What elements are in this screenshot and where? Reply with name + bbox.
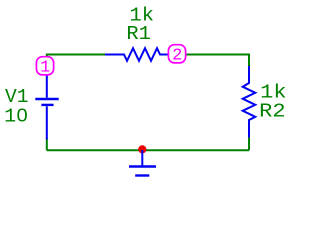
voltage source V1 positive plate (long bar) <box>35 98 58 100</box>
voltage source V1 (battery) leads <box>46 66 48 140</box>
resistor R1 body (zigzag) <box>105 48 170 61</box>
svg-text:R2: R2 <box>259 100 286 122</box>
resistor R2 body (zigzag) <box>243 66 256 138</box>
junction dot (red) on ground rail <box>138 145 146 153</box>
voltage source V1 negative plate (short bar) <box>41 104 53 106</box>
wire: node 1 up to top-left corner and right to R1 <box>47 55 105 67</box>
wire: bottom ground rail <box>47 149 249 151</box>
ground symbol short bar <box>135 174 149 176</box>
white patch hiding dotted-zero center <box>19 114 25 119</box>
wire: R2 bottom lead down to bottom-right corner <box>248 137 250 150</box>
wire: V1 negative lead down to bottom-left corner <box>46 139 48 151</box>
node 1 marker <box>36 57 53 75</box>
svg-text:1: 1 <box>40 59 50 78</box>
ground symbol stem <box>141 150 143 166</box>
svg-text:R1: R1 <box>126 23 150 45</box>
svg-text:2: 2 <box>172 47 182 66</box>
wire: node 2 right to top-right corner down to R2 <box>177 55 249 67</box>
ground symbol long bar <box>129 165 156 167</box>
node 2 marker <box>168 45 185 63</box>
